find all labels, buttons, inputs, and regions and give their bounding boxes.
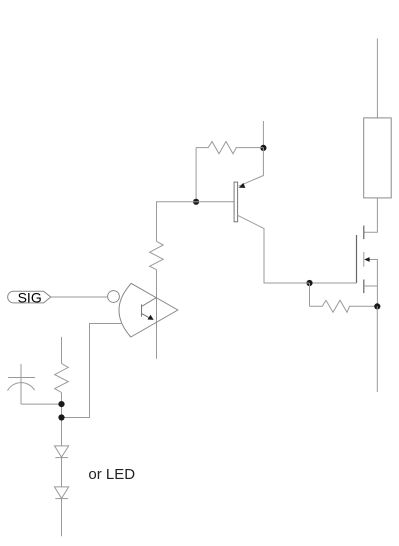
wire base lead (196, 201, 234, 203)
resistor R2 (base-emitter) (196, 142, 263, 154)
wire V+ supply top right (376, 39, 378, 118)
wire gate lower input (62, 324, 122, 418)
wire source down (output) (376, 306, 378, 392)
capacitor C1 curved plate (8, 383, 35, 391)
wire R2 left down to base node (195, 148, 197, 202)
resistor R3 (pull-up) (150, 241, 164, 269)
capacitor C1 flat plate (8, 377, 35, 379)
resistor R4 (left pull-down) (55, 364, 69, 393)
node C (260, 145, 266, 151)
capacitor C1 lead (20, 364, 22, 404)
resistor R1 (box load) (364, 118, 392, 198)
wire gate supply rail (156, 270, 158, 359)
node F (58, 414, 64, 420)
wire Q1 collector (238, 215, 310, 283)
wire M1 gate lead (310, 282, 357, 284)
gate U1 input bubble (108, 291, 120, 303)
arrowhead U1 emitter mark (148, 315, 154, 320)
wire Q1 emitter (239, 148, 264, 186)
wire left rail stub (61, 337, 63, 364)
node D (193, 199, 199, 205)
wire node A down to resistor (309, 283, 311, 306)
wire between diodes (61, 458, 63, 487)
gate U1 body (119, 283, 178, 337)
wire drain lead (364, 198, 378, 232)
node B (374, 303, 380, 309)
arrowhead M1 body (points left) (364, 257, 369, 262)
svg-text:or LED: or LED (88, 466, 135, 483)
SIG net flag (8, 291, 51, 303)
wire left rail down through nodes (61, 393, 63, 446)
transistor M1 (N-MOSFET) (357, 226, 364, 294)
wire below D2 (61, 499, 63, 537)
wire C1 to node (21, 403, 62, 405)
arrowhead Q1 emitter (PNP, points into bar) (239, 183, 246, 188)
gate U1 open-collector transistor mark (142, 298, 157, 318)
svg-text:SIG: SIG (18, 289, 42, 305)
node A (306, 280, 312, 286)
node E (58, 401, 64, 407)
wire SIG to gate input (51, 296, 108, 298)
resistor R5 (gate-source) (310, 300, 378, 312)
wire node D left and down (157, 202, 197, 242)
transistor Q1 (PNP) (234, 182, 238, 222)
diode D1 (55, 446, 69, 458)
diode D2 (55, 487, 69, 499)
wire emitter stub up (262, 121, 264, 148)
